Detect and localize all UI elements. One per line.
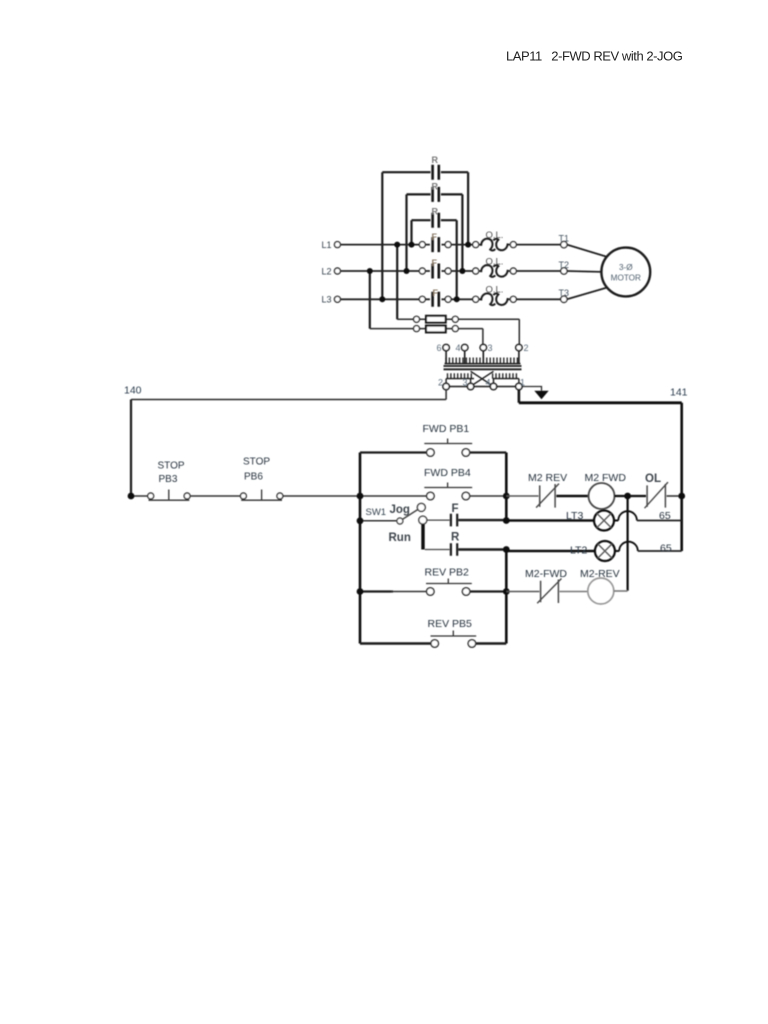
svg-text:6: 6 xyxy=(437,343,442,353)
svg-text:STOP: STOP xyxy=(243,457,270,468)
svg-text:2: 2 xyxy=(438,378,443,388)
svg-text:1: 1 xyxy=(520,378,525,388)
svg-text:L1: L1 xyxy=(322,240,332,250)
svg-text:F: F xyxy=(433,288,439,298)
svg-text:OL: OL xyxy=(645,473,661,485)
svg-text:2: 2 xyxy=(524,343,529,353)
svg-text:O.L.: O.L. xyxy=(486,285,504,296)
svg-text:LT3: LT3 xyxy=(566,510,583,522)
svg-text:M2 REV: M2 REV xyxy=(528,472,567,484)
svg-text:REV PB5: REV PB5 xyxy=(428,618,473,630)
svg-text:Run: Run xyxy=(389,532,411,544)
svg-text:65: 65 xyxy=(659,510,671,522)
svg-text:MOTOR: MOTOR xyxy=(611,274,641,283)
svg-text:4: 4 xyxy=(456,343,461,353)
svg-text:SW1: SW1 xyxy=(366,507,387,518)
svg-text:L2: L2 xyxy=(322,266,332,276)
svg-text:141: 141 xyxy=(670,387,688,399)
svg-text:M2-FWD: M2-FWD xyxy=(525,568,567,580)
svg-text:3: 3 xyxy=(488,343,493,353)
svg-text:L3: L3 xyxy=(322,295,332,305)
svg-text:LT2: LT2 xyxy=(570,545,587,557)
svg-text:REV PB2: REV PB2 xyxy=(425,567,470,579)
svg-text:M2 FWD: M2 FWD xyxy=(585,472,627,484)
svg-text:65: 65 xyxy=(660,543,672,555)
svg-text:F: F xyxy=(432,258,438,268)
svg-text:R: R xyxy=(451,532,460,544)
svg-text:M2-REV: M2-REV xyxy=(580,568,620,580)
svg-text:R: R xyxy=(432,207,439,217)
svg-text:R: R xyxy=(432,155,439,165)
svg-text:Jog: Jog xyxy=(390,504,410,516)
svg-text:T1: T1 xyxy=(559,233,570,243)
svg-text:3: 3 xyxy=(463,378,468,388)
svg-text:T2: T2 xyxy=(559,260,570,270)
svg-text:R: R xyxy=(432,182,439,192)
svg-text:FWD PB1: FWD PB1 xyxy=(423,423,470,435)
svg-text:FWD PB4: FWD PB4 xyxy=(424,467,471,479)
svg-text:140: 140 xyxy=(124,385,142,397)
svg-text:PB3: PB3 xyxy=(159,474,178,485)
svg-text:F: F xyxy=(452,503,459,515)
svg-text:T3: T3 xyxy=(559,288,570,298)
svg-text:LAP11 2-FWD REV with 2-JOG: LAP11 2-FWD REV with 2-JOG xyxy=(506,49,683,64)
svg-text:O.L.: O.L. xyxy=(486,256,504,267)
svg-text:PB6: PB6 xyxy=(244,472,263,483)
svg-text:F: F xyxy=(432,232,438,242)
svg-text:4: 4 xyxy=(486,378,491,388)
svg-text:3-Ø: 3-Ø xyxy=(619,263,633,272)
svg-text:O.L.: O.L. xyxy=(486,230,504,241)
svg-text:STOP: STOP xyxy=(158,461,185,472)
